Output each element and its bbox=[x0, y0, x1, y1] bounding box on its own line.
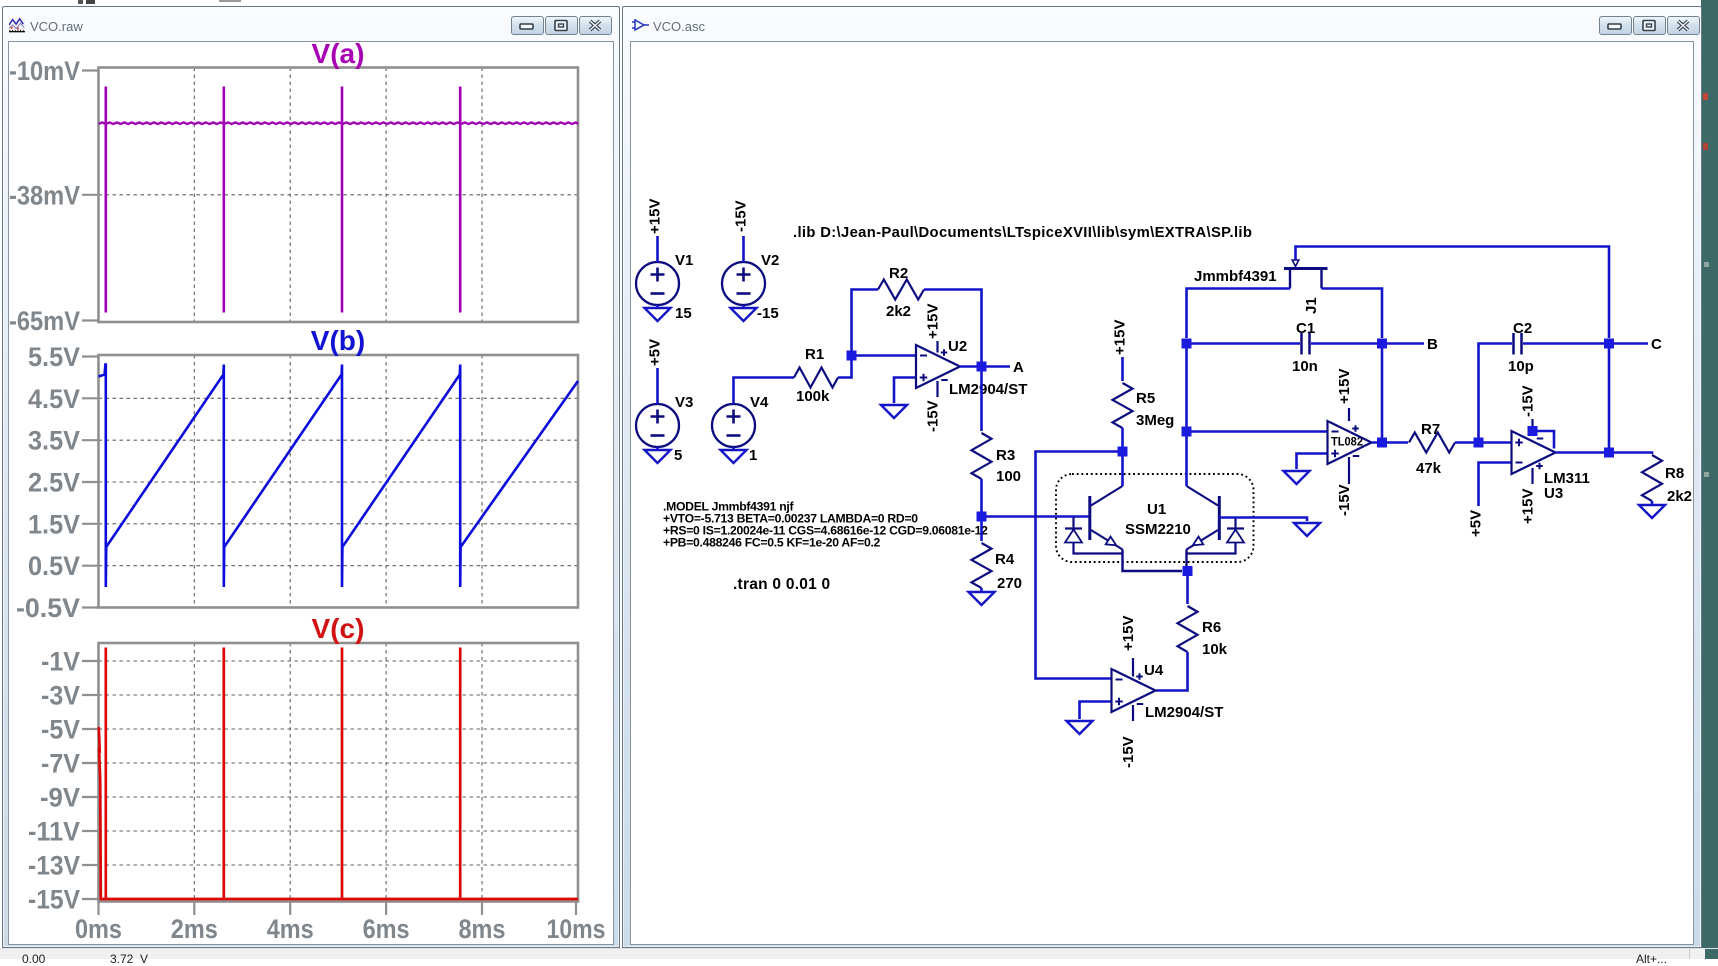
svg-text:-38mV: -38mV bbox=[9, 180, 80, 210]
node C label bbox=[1651, 336, 1662, 353]
wire U1 right base to ground bbox=[1219, 518, 1307, 522]
svg-text:R8: R8 bbox=[1665, 465, 1684, 482]
capacitor C1 bbox=[1187, 320, 1383, 375]
svg-text:R7: R7 bbox=[1421, 421, 1440, 438]
wire U2 non-inverting input to ground bbox=[894, 378, 916, 404]
svg-text:V(c): V(c) bbox=[312, 613, 365, 644]
svg-text:V4: V4 bbox=[750, 394, 769, 411]
svg-text:-65mV: -65mV bbox=[9, 306, 80, 336]
svg-text:+15V: +15V bbox=[925, 304, 942, 339]
wire junctions bbox=[847, 339, 1615, 577]
op-amp U2 LM2904/ST bbox=[916, 304, 1027, 432]
svg-text:-5V: -5V bbox=[41, 715, 80, 745]
svg-text:A: A bbox=[1013, 359, 1024, 376]
svg-text:4.5V: 4.5V bbox=[28, 384, 80, 414]
diode right of U1 bbox=[1187, 518, 1245, 554]
wire to TL082 inverting input bbox=[1187, 430, 1328, 433]
wire output node down to R3 bbox=[980, 367, 983, 432]
ground at U4 + input bbox=[1067, 721, 1093, 734]
svg-text:-11V: -11V bbox=[28, 817, 80, 847]
voltage source V2 bbox=[722, 200, 779, 322]
svg-text:R5: R5 bbox=[1136, 390, 1155, 407]
comparator U3 LM311 bbox=[1512, 385, 1590, 524]
svg-text:10k: 10k bbox=[1202, 641, 1228, 658]
resistor R4 bbox=[972, 517, 1023, 593]
wire LM311 balance bracket bbox=[1533, 431, 1555, 449]
svg-text:SSM2210: SSM2210 bbox=[1125, 521, 1191, 538]
svg-text:R3: R3 bbox=[996, 447, 1015, 464]
svg-text:R2: R2 bbox=[889, 265, 908, 282]
svg-text:10n: 10n bbox=[1292, 358, 1318, 375]
svg-text:-15V: -15V bbox=[733, 200, 750, 232]
resistor R6 bbox=[1178, 606, 1228, 658]
svg-text:0.5V: 0.5V bbox=[28, 551, 80, 581]
svg-text:100: 100 bbox=[996, 468, 1021, 485]
svg-text:LM2904/ST: LM2904/ST bbox=[1145, 704, 1223, 721]
svg-text:Jmmbf4391: Jmmbf4391 bbox=[1194, 268, 1277, 285]
svg-text:TL082: TL082 bbox=[1331, 437, 1363, 449]
transistor Q left of U1 bbox=[1090, 452, 1182, 572]
wire R5 node to U4 inverting input bbox=[1036, 452, 1123, 679]
wire output node to R8 bbox=[1609, 453, 1652, 455]
ground below R8 bbox=[1639, 501, 1665, 518]
ground of V1 bbox=[645, 305, 671, 321]
resistor R3 bbox=[972, 433, 1022, 485]
svg-text:3.5V: 3.5V bbox=[28, 426, 80, 456]
capacitor C2 bbox=[1479, 320, 1610, 443]
svg-text:C1: C1 bbox=[1296, 320, 1315, 337]
resistor R1 bbox=[794, 346, 838, 405]
svg-text:2k2: 2k2 bbox=[886, 303, 911, 320]
svg-text:6ms: 6ms bbox=[363, 914, 410, 944]
svg-text:.tran 0 0.01 0: .tran 0 0.01 0 bbox=[733, 576, 830, 593]
voltage source V1 bbox=[636, 199, 693, 322]
wire R2 to output node bbox=[924, 290, 982, 367]
svg-text:V(a): V(a) bbox=[312, 41, 365, 69]
svg-text:-15V: -15V bbox=[1336, 484, 1353, 516]
wire node C down to LM311 output bbox=[1608, 344, 1611, 453]
svg-text:-15V: -15V bbox=[28, 885, 80, 915]
svg-text:2ms: 2ms bbox=[171, 914, 218, 944]
svg-text:+PB=0.488246 FC=0.5 KF=1e-20 A: +PB=0.488246 FC=0.5 KF=1e-20 AF=0.2 bbox=[663, 536, 881, 550]
svg-text:-15V: -15V bbox=[1520, 385, 1537, 417]
svg-text:47k: 47k bbox=[1416, 460, 1442, 477]
ground of V2 bbox=[731, 305, 757, 321]
wire to U2 inverting input bbox=[852, 354, 917, 357]
svg-text:+15V: +15V bbox=[1336, 369, 1353, 404]
svg-text:+5V: +5V bbox=[1468, 510, 1485, 537]
svg-text:V(b): V(b) bbox=[311, 325, 365, 356]
wire J1 right leg down to C1 right node bbox=[1322, 289, 1383, 339]
svg-text:B: B bbox=[1427, 336, 1438, 353]
svg-text:15: 15 bbox=[675, 305, 692, 322]
wire C1 right node down to TL082 output bbox=[1381, 344, 1384, 443]
svg-text:2k2: 2k2 bbox=[1667, 488, 1692, 505]
svg-text:+15V: +15V bbox=[1520, 489, 1537, 524]
svg-text:-9V: -9V bbox=[40, 783, 80, 813]
wire R3 to base node bbox=[980, 479, 983, 517]
ground below R4 bbox=[969, 592, 995, 605]
svg-text:U2: U2 bbox=[948, 338, 967, 355]
resistor R8 bbox=[1642, 455, 1692, 505]
svg-text:-0.5V: -0.5V bbox=[16, 593, 80, 623]
diode left of U1 bbox=[1065, 518, 1123, 554]
node A label bbox=[1013, 359, 1024, 376]
svg-text:-7V: -7V bbox=[41, 749, 80, 779]
wire C1 node to node B bbox=[1382, 342, 1424, 345]
wire LM311 inverting input to +5V bbox=[1468, 463, 1512, 538]
JFET J1 Jmmbf4391 bbox=[1194, 260, 1328, 314]
transistor Q right of U1 bbox=[1187, 432, 1220, 571]
node B label bbox=[1427, 336, 1438, 353]
wire LM311 output to node bbox=[1556, 451, 1610, 454]
wire R6 to U4 output bbox=[1156, 652, 1188, 691]
svg-text:+5V: +5V bbox=[647, 339, 664, 366]
svg-text:-13V: -13V bbox=[28, 851, 80, 881]
svg-text:-3V: -3V bbox=[41, 681, 80, 711]
svg-text:-15V: -15V bbox=[1120, 736, 1137, 768]
wire V4 to R1 bbox=[734, 378, 795, 405]
svg-text:U4: U4 bbox=[1144, 662, 1164, 679]
svg-text:R1: R1 bbox=[805, 346, 824, 363]
ground at U1 right base bbox=[1294, 523, 1320, 536]
svg-text:10ms: 10ms bbox=[547, 914, 606, 944]
voltage source V3 bbox=[636, 339, 693, 464]
svg-text:V1: V1 bbox=[675, 252, 693, 269]
svg-text:10p: 10p bbox=[1508, 358, 1534, 375]
svg-text:C2: C2 bbox=[1513, 320, 1532, 337]
voltage source V4 bbox=[712, 394, 769, 464]
wire TL082 output to R7 bbox=[1372, 441, 1409, 444]
svg-text:1: 1 bbox=[749, 447, 757, 464]
wire C1 left node down to TL082 input bbox=[1185, 344, 1188, 433]
wire TL082 non-inverting input to ground bbox=[1297, 454, 1328, 470]
svg-text:4ms: 4ms bbox=[267, 914, 314, 944]
svg-text:U1: U1 bbox=[1147, 501, 1166, 518]
ground at TL082 + input bbox=[1284, 471, 1310, 484]
svg-text:C: C bbox=[1651, 336, 1662, 353]
svg-text:J1: J1 bbox=[1303, 297, 1320, 314]
svg-text:-15V: -15V bbox=[925, 400, 942, 432]
ground at U2 + input bbox=[881, 405, 907, 418]
spice directive .lib bbox=[793, 225, 1252, 241]
wire J1 gate feedback to node C column bbox=[1296, 247, 1610, 339]
spice directive .MODEL Jmmbf4391 bbox=[663, 500, 988, 550]
wire emitters to R6 bbox=[1186, 571, 1189, 604]
svg-text:V3: V3 bbox=[675, 394, 693, 411]
svg-text:.lib D:\Jean-Paul\Documents\LT: .lib D:\Jean-Paul\Documents\LTspiceXVII\… bbox=[793, 225, 1252, 241]
spice directive .tran bbox=[733, 576, 830, 593]
svg-text:V2: V2 bbox=[761, 252, 779, 269]
svg-text:LM2904/ST: LM2904/ST bbox=[949, 381, 1027, 398]
svg-text:270: 270 bbox=[997, 575, 1022, 592]
wire U4 non-inverting input to ground bbox=[1080, 702, 1112, 720]
svg-text:100k: 100k bbox=[796, 388, 830, 405]
svg-text:U3: U3 bbox=[1544, 485, 1563, 502]
resistor R5 with +15V bbox=[1112, 320, 1175, 452]
resistor R2 bbox=[878, 265, 924, 320]
svg-text:1.5V: 1.5V bbox=[28, 509, 80, 539]
svg-text:-15: -15 bbox=[757, 305, 779, 322]
wire R1 to inverting input node bbox=[838, 356, 852, 378]
wire J1 left leg down to C1 left node bbox=[1187, 289, 1291, 339]
svg-text:+15V: +15V bbox=[1112, 320, 1129, 355]
ground of V3 bbox=[645, 447, 671, 463]
svg-text:5: 5 bbox=[674, 447, 682, 464]
svg-text:+15V: +15V bbox=[1120, 616, 1137, 651]
svg-text:0ms: 0ms bbox=[75, 914, 122, 944]
ground of V4 bbox=[721, 447, 747, 463]
svg-text:-10mV: -10mV bbox=[9, 56, 80, 86]
resistor R7 bbox=[1409, 421, 1455, 477]
wire R7 to LM311 + input node bbox=[1455, 441, 1512, 444]
svg-text:+15V: +15V bbox=[647, 199, 664, 234]
svg-text:R4: R4 bbox=[995, 551, 1015, 568]
svg-text:5.5V: 5.5V bbox=[28, 342, 80, 372]
wire R3/R4 node to U1 left base bbox=[982, 515, 1090, 518]
svg-text:R6: R6 bbox=[1202, 619, 1221, 636]
op-amp TL082 bbox=[1328, 369, 1372, 516]
transistor pair U1 SSM2210 dotted box bbox=[1056, 474, 1254, 562]
svg-text:2.5V: 2.5V bbox=[28, 468, 80, 498]
wire C2 node to node C bbox=[1609, 342, 1648, 345]
svg-text:8ms: 8ms bbox=[459, 914, 506, 944]
status bar bbox=[0, 948, 1718, 959]
desktop strip right bbox=[1701, 0, 1718, 958]
wire U2 output to node A bbox=[960, 365, 1010, 368]
top toolbar sliver bbox=[78, 0, 83, 4]
svg-text:3Meg: 3Meg bbox=[1136, 412, 1174, 429]
svg-text:-1V: -1V bbox=[41, 647, 80, 677]
wire node to R2 bbox=[852, 290, 879, 356]
op-amp U4 LM2904/ST bbox=[1112, 616, 1224, 768]
